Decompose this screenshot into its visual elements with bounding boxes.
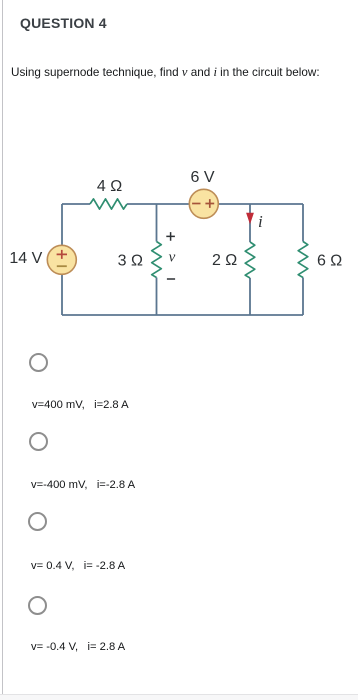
svg-text:2 Ω: 2 Ω (212, 252, 237, 269)
svg-text:v: v (169, 250, 176, 266)
resistor R=3ohm (vertical) (152, 242, 162, 278)
svg-text:14 V: 14 V (9, 250, 42, 267)
voltage source 14 V (47, 245, 76, 274)
plus polarity mark of 6 V source (205, 199, 214, 208)
option 4 text (31, 641, 125, 653)
plus polarity mark of 14 V source (57, 250, 67, 259)
resistor R=2ohm (vertical) (245, 242, 255, 278)
minus polarity mark of 6 V source (192, 203, 200, 205)
plus sign of v (166, 232, 175, 241)
radio option 1 (29, 353, 48, 372)
minus sign of v (167, 278, 175, 280)
wire bottom (62, 314, 303, 316)
title (20, 15, 107, 31)
radio option 3 (28, 512, 47, 531)
resistor R=4ohm (horizontal) (90, 199, 127, 209)
current arrow i (246, 213, 254, 225)
svg-text:3 Ω: 3 Ω (118, 253, 143, 270)
card bottom border (0, 694, 358, 695)
radio option 4 (28, 596, 47, 615)
voltage source 6 V (189, 189, 218, 218)
option 2 text (31, 479, 135, 491)
wire right (6-ohm branch) (302, 204, 304, 315)
wire top (62, 203, 303, 205)
wire middle (3-ohm branch) (156, 204, 158, 315)
resistor R=6ohm (vertical) (298, 242, 308, 278)
card left border (2, 0, 4, 695)
circuit figure (0, 150, 358, 340)
option 1 text (32, 399, 129, 411)
question text (11, 65, 320, 80)
svg-text:4 Ω: 4 Ω (97, 178, 122, 195)
svg-text:i: i (258, 212, 263, 231)
svg-text:6 Ω: 6 Ω (317, 253, 342, 270)
wire left (61, 204, 63, 315)
wire 2-ohm branch (249, 204, 251, 315)
svg-text:6 V: 6 V (190, 169, 214, 186)
option 3 text (31, 560, 125, 572)
labels (9, 169, 342, 270)
minus polarity mark of 14 V source (57, 265, 67, 267)
radio option 2 (29, 432, 48, 451)
